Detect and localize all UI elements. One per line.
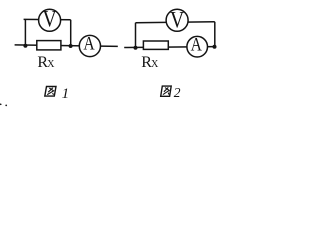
wire: figure1 top conductor bbox=[24, 18, 71, 20]
voltmeter V (figure 1) bbox=[39, 6, 61, 31]
ammeter A (figure 2) bbox=[187, 35, 208, 57]
svg-text:A: A bbox=[191, 35, 203, 55]
wire: figure2 left riser bbox=[135, 23, 137, 48]
svg-text:V: V bbox=[170, 7, 185, 32]
wire: figure1 right riser bbox=[70, 20, 72, 46]
label figure-2 caption glyph 图 bbox=[161, 86, 172, 96]
resistor Rx box (figure 2) bbox=[143, 41, 168, 49]
svg-text:2: 2 bbox=[174, 85, 181, 100]
wire: figure2 bottom conductor bbox=[124, 46, 214, 49]
wire: figure2 top conductor bbox=[136, 21, 215, 24]
svg-text:V: V bbox=[43, 6, 58, 31]
wire: figure2 right riser bbox=[214, 22, 216, 47]
svg-text:RX: RX bbox=[37, 54, 55, 71]
partial cropped text mark (bottom-left edge, right speck) bbox=[5, 105, 7, 107]
svg-text:RX: RX bbox=[141, 54, 159, 71]
junction node (figure 1, left) bbox=[23, 44, 27, 48]
wire: figure1 bottom conductor bbox=[15, 45, 118, 47]
partial cropped text mark (bottom-left edge, left speck) bbox=[0, 104, 2, 106]
svg-text:1: 1 bbox=[62, 86, 70, 102]
wire: figure1 left riser bbox=[24, 19, 26, 45]
junction node (figure 1, right) bbox=[69, 44, 73, 48]
junction node (figure 2, left) bbox=[134, 46, 138, 50]
junction node (figure 2, right) bbox=[213, 45, 217, 49]
voltmeter V (figure 2) bbox=[166, 7, 188, 32]
label figure-1 caption glyph 图 bbox=[45, 87, 56, 97]
resistor Rx box (figure 1) bbox=[37, 41, 61, 50]
svg-text:A: A bbox=[83, 35, 95, 55]
ammeter A (figure 1) bbox=[79, 35, 100, 57]
